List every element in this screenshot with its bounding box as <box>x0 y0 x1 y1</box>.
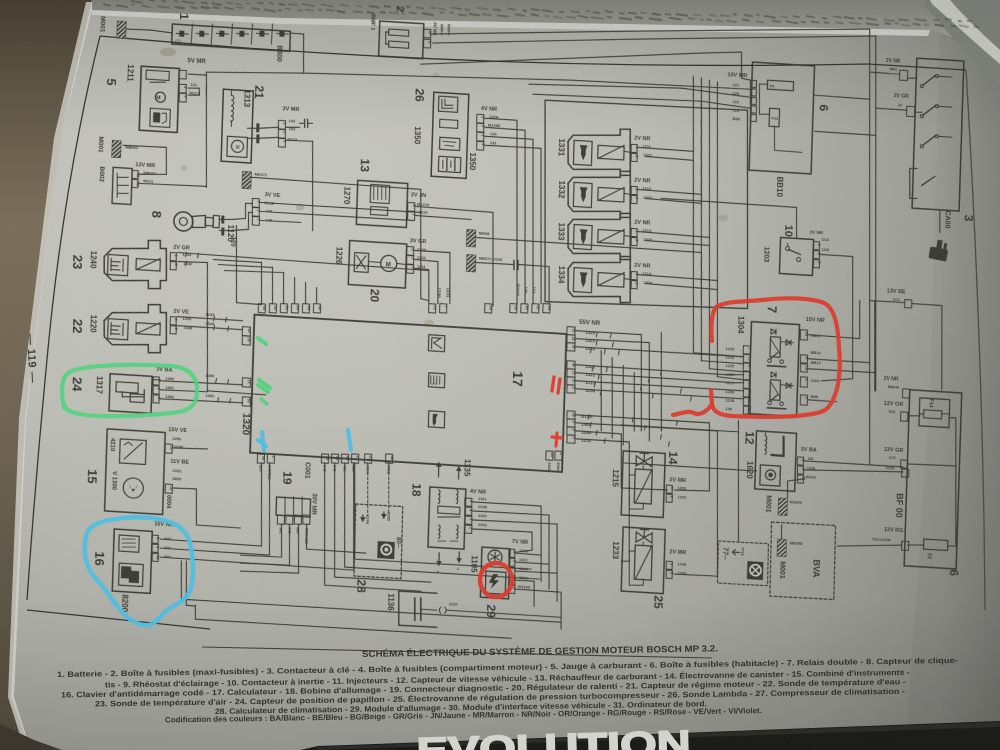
solenoid valve 14 <box>621 451 665 518</box>
wire to 24 mid <box>207 391 265 395</box>
wire 23 pin1 long <box>176 252 430 303</box>
wire into BVA <box>780 525 783 539</box>
box 16 code keypad <box>112 529 152 593</box>
red circle around module 29 icon <box>480 563 512 597</box>
wire crossing ticks <box>595 332 598 336</box>
relay upper contact <box>768 359 772 363</box>
big enclosure around injectors (11) <box>539 98 754 315</box>
ignition coil 18 <box>428 487 466 549</box>
ignition switch 3 <box>912 58 964 211</box>
red tick marks near 17 right pins <box>552 377 560 393</box>
page left edge highlight <box>8 2 94 748</box>
right fuse box 6 (BF00) <box>904 390 962 569</box>
wires 18 to 29 <box>471 502 544 581</box>
battery 1 <box>172 24 291 51</box>
injector 1334 <box>568 253 630 273</box>
wires 17 to relay 7 <box>575 331 641 335</box>
short verticals left of relay <box>599 351 604 431</box>
vertical bus right 868 <box>856 29 884 465</box>
box 20 idle speed regulator <box>348 241 406 289</box>
relay lower coil <box>770 380 781 401</box>
wire 120 down <box>234 225 264 304</box>
bottom-left table corner <box>0 724 62 750</box>
wires box 5 <box>188 74 206 75</box>
ground ME072 D130 <box>466 254 476 272</box>
throttle sensor 24 (1317) <box>109 374 152 414</box>
wires from box 2 <box>431 2 870 61</box>
vertical to 77 box <box>735 421 743 541</box>
injector 1332 <box>568 168 630 188</box>
ground ME068 <box>777 539 787 557</box>
dashed wire 8055 <box>387 463 390 513</box>
wire 24 pin3 <box>160 398 242 404</box>
wire 13 to pin19 <box>412 206 496 305</box>
caps on wires <box>256 123 259 132</box>
box 21 coded immobiliser <box>221 89 253 163</box>
valve icon <box>356 255 365 269</box>
wire bundle to fuse box 6 <box>421 32 752 84</box>
box 5 fuel gauge <box>139 66 179 132</box>
wire long bus to fuse box 6 <box>304 62 751 101</box>
wire 23 pin2 down <box>173 261 211 391</box>
double relay 7 <box>749 322 800 417</box>
box 28 clim control (dashed) <box>354 504 403 579</box>
box 10 inertia switch <box>779 237 813 275</box>
wires relay 7 right <box>808 297 861 338</box>
diagnostic connector 19 <box>276 497 311 517</box>
relay 7 left pins <box>743 346 750 354</box>
injector feed verticals <box>684 76 752 357</box>
wires 17 bottom to right <box>321 463 425 591</box>
stains on page <box>160 48 176 57</box>
ground M001 battery <box>117 21 127 39</box>
fuse box 2 BMF1 <box>379 21 424 59</box>
ground M1620 <box>778 498 788 516</box>
wire 10 to relay 1203 <box>817 254 857 382</box>
ground MB002 <box>112 140 122 158</box>
red marker ellipse around relay 7 <box>711 298 840 417</box>
wires 26 pins right then down <box>479 118 523 303</box>
caps on 8 wires <box>221 215 224 223</box>
dashed box BVA automatic gearbox <box>770 522 836 599</box>
wires box 12 <box>805 461 903 467</box>
capacitor on ME072 wire <box>513 261 516 270</box>
cap symbol right <box>300 122 305 125</box>
wires box6 right <box>815 95 870 99</box>
wire to key <box>939 210 940 232</box>
ground ME08 <box>466 229 476 247</box>
dashed wire 1234 <box>366 463 369 516</box>
wire 15 pin2 <box>172 487 241 528</box>
green tick marks left of 17 <box>258 338 266 344</box>
motor M <box>155 92 165 103</box>
long wire 12 left <box>623 463 756 471</box>
wire 24 pin1 <box>160 380 242 386</box>
capacitor 1136 <box>398 591 438 627</box>
vertical bus right 874 <box>864 36 887 391</box>
box 26 lambda probe <box>431 92 469 178</box>
wire battery to bus <box>289 33 304 73</box>
sensor 22 (2V VE) <box>103 301 167 354</box>
box 13 fuel heater <box>356 180 407 227</box>
fuel pump icon <box>150 108 171 127</box>
wire 15 pin1 <box>173 447 207 450</box>
sensor 23 (2V GR) <box>103 237 167 290</box>
blue tick marks below 17 <box>258 432 266 450</box>
injector 1331 <box>568 125 630 145</box>
17 top pin row <box>258 304 265 313</box>
frame border of schematic <box>100 36 966 70</box>
blue blob around keypad 16 <box>85 517 193 625</box>
wire across to 12 area <box>621 425 738 433</box>
green ellipse around sensor 24 <box>62 365 197 416</box>
solenoid valve 25 <box>621 527 665 594</box>
wires 19 down-left <box>240 522 282 558</box>
adjacent page fold <box>925 0 1000 86</box>
switch 3 lower contacts <box>909 168 918 199</box>
wire ME072 <box>476 262 514 265</box>
EVOLUTION letters (tops visible) <box>416 722 691 750</box>
relay 7 right pins <box>800 330 807 340</box>
wire ME071 <box>248 177 432 300</box>
ignition module 29 <box>480 547 510 599</box>
wire ground to battery <box>126 29 172 33</box>
relay upper coil <box>770 337 781 358</box>
wire 22 pin1 <box>177 317 242 321</box>
wires from 8 pins right <box>261 202 421 212</box>
17 left pins <box>242 327 250 336</box>
wires 16 to 17 <box>160 457 264 546</box>
icons inside 17 <box>428 335 445 352</box>
bottom bus wires <box>180 561 562 623</box>
fuse box 6 BB10 <box>749 62 814 174</box>
wires verticals into relay 7 <box>701 361 743 364</box>
adjacent page on top <box>92 0 1000 54</box>
ground ME071 <box>242 171 252 189</box>
box 17 ECU calculateur <box>250 315 566 472</box>
key icon <box>928 238 949 261</box>
box 12 speed sensor <box>755 431 797 491</box>
wires 17 lower right pins <box>573 415 712 493</box>
wire 20 pin to 17 <box>413 250 451 303</box>
relay lower contact <box>768 401 772 405</box>
wire from 21 pin3 down right <box>287 140 313 142</box>
wires right box <box>908 415 920 416</box>
injector wires to verticals <box>637 147 693 151</box>
knock sensor 8 <box>174 211 194 231</box>
verticals from 17 top left pins <box>260 263 263 304</box>
wire MB002 <box>122 145 167 175</box>
wire 24 pin2 <box>160 389 207 393</box>
wire 8 to pins <box>232 202 252 220</box>
long bus verticals center <box>698 100 704 200</box>
fuse F2 <box>923 539 947 550</box>
injector 1333 <box>568 210 630 230</box>
wire 22 pin2 <box>177 326 242 330</box>
17 right pins <box>567 327 575 335</box>
bright page top edge under strip <box>92 10 930 36</box>
wire ME08 <box>474 238 703 303</box>
tiny text on adjacent page <box>103 0 979 28</box>
box 15 instrument cluster <box>105 429 166 515</box>
bottom black banner <box>300 721 1000 750</box>
wire to box 10 <box>660 198 797 237</box>
box B002 <box>112 167 132 204</box>
17 bottom pins <box>257 454 264 463</box>
dashed box 77 onboard computer <box>717 541 768 586</box>
fuse F14 <box>919 398 950 428</box>
